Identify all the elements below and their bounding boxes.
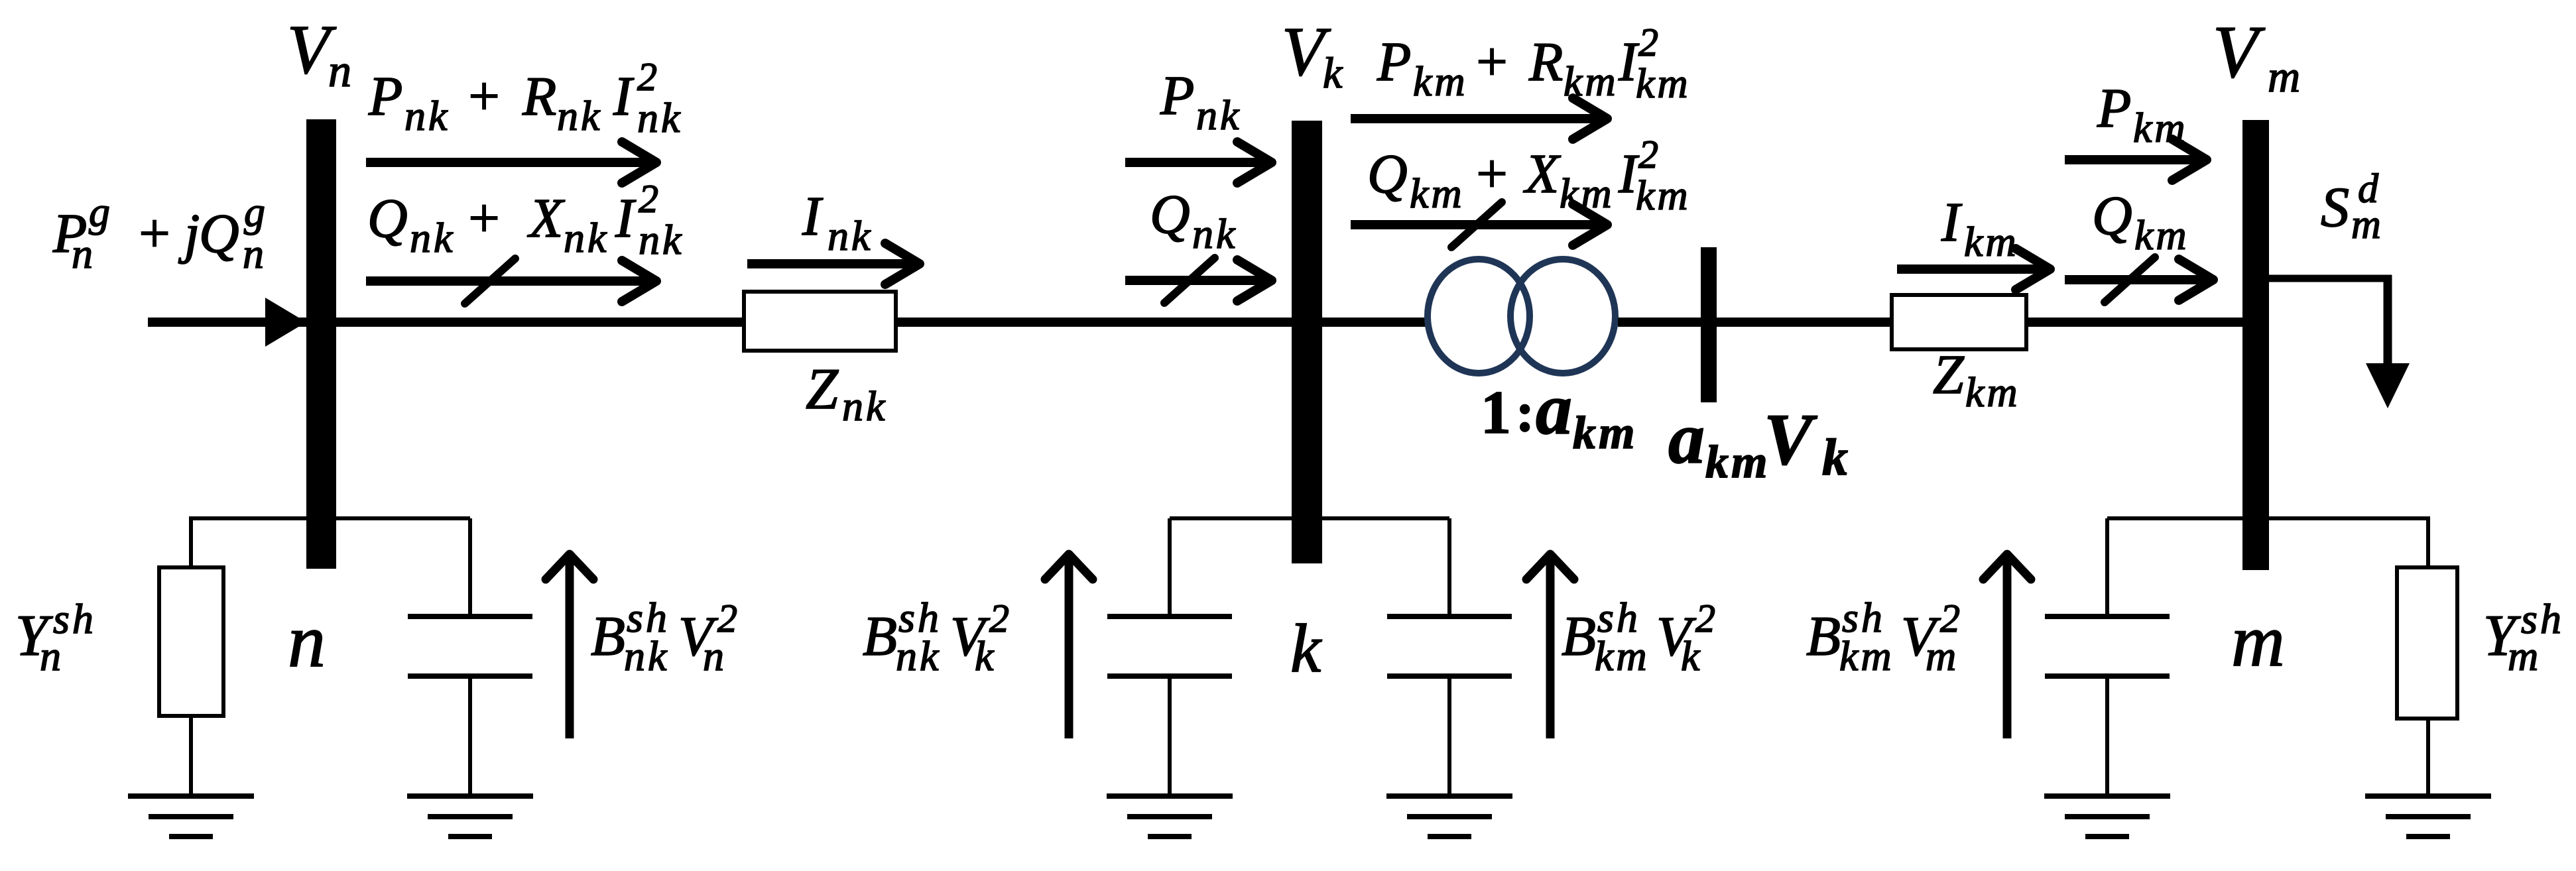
ground below bus k left capacitor — [1107, 793, 1233, 799]
shunt capacitor Bnk at bus n — [468, 518, 472, 616]
svg-text:Z: Z — [1933, 344, 1965, 406]
shunt capacitor Bnk at bus k — [1168, 518, 1172, 616]
svg-text:I: I — [613, 66, 635, 127]
internal node akmVk bar — [1701, 247, 1717, 402]
svg-text:km: km — [1595, 632, 1650, 679]
arrow BnkVn2 reactive injection — [566, 558, 574, 738]
svg-text:k: k — [1681, 632, 1701, 679]
shunt branch wire at bus n — [189, 516, 470, 520]
svg-text:Q: Q — [2092, 185, 2132, 247]
svg-text:m: m — [2268, 51, 2300, 101]
svg-text:nk: nk — [410, 214, 455, 261]
svg-text:B: B — [1806, 605, 1841, 668]
svg-text:a: a — [1536, 369, 1572, 449]
svg-text:g: g — [89, 188, 110, 235]
svg-text:n: n — [703, 632, 724, 679]
svg-text:k: k — [1290, 610, 1322, 687]
wire node akmVk to Zkm — [1717, 318, 1893, 327]
shunt branch wire at bus m — [2107, 516, 2428, 520]
svg-text:I: I — [802, 186, 824, 247]
arrow Ink current — [747, 259, 914, 268]
wire Ynsh to ground — [189, 716, 193, 796]
svg-text:km: km — [2134, 211, 2189, 259]
arrow Pkm into bus m — [2065, 155, 2201, 164]
impedance Zkm — [1892, 295, 2026, 349]
arrow Pkm flow from bus k — [1351, 114, 1602, 123]
svg-text:nk: nk — [828, 212, 873, 259]
svg-text:nk: nk — [564, 214, 609, 261]
svg-text:R: R — [1528, 31, 1563, 93]
impedance Znk — [744, 292, 896, 351]
shunt branch wire at bus k — [1170, 516, 1449, 520]
svg-text:I: I — [1941, 192, 1963, 253]
wire transformer to internal node akmVk — [1618, 318, 1701, 327]
svg-text:m: m — [2351, 202, 2381, 247]
svg-text:nk: nk — [1192, 210, 1237, 257]
svg-text:km: km — [1636, 60, 1691, 107]
svg-text:km: km — [1964, 218, 2019, 265]
wire bus n to Znk — [336, 318, 745, 327]
arrow Pnk into bus k — [1125, 158, 1266, 167]
load tap wire at bus m — [2269, 275, 2392, 282]
svg-text:g: g — [244, 188, 265, 235]
svg-text:X: X — [527, 188, 566, 249]
svg-text:+: + — [465, 66, 503, 127]
svg-text:n: n — [72, 230, 93, 277]
svg-text:km: km — [1573, 408, 1637, 459]
bus n busbar — [306, 119, 336, 569]
main transmission line: generator feed into bus n — [148, 318, 306, 327]
svg-text:+: + — [1473, 31, 1510, 93]
wire Zkm to bus m — [2026, 318, 2242, 327]
ground below Ynsh — [128, 793, 254, 799]
svg-text:n: n — [328, 46, 351, 97]
svg-text:Q: Q — [367, 188, 408, 249]
arrow BkmVk2 reactive injection — [1546, 558, 1555, 738]
ground below bus m capacitor — [2044, 793, 2170, 799]
arrow Ikm current — [1897, 264, 2045, 274]
svg-text:nk: nk — [404, 92, 450, 139]
arrow BnkVk2 reactive injection — [1065, 558, 1073, 738]
svg-text:1: 1 — [1481, 378, 1511, 446]
svg-text:+: + — [465, 188, 503, 249]
svg-text:n: n — [243, 230, 264, 277]
bus k busbar — [1292, 121, 1322, 563]
svg-text:V: V — [2213, 11, 2266, 93]
svg-text:+: + — [135, 203, 173, 264]
svg-text:m: m — [1926, 632, 1956, 679]
svg-text:nk: nk — [842, 382, 887, 430]
svg-text:km: km — [1413, 58, 1468, 105]
svg-text:P: P — [2097, 78, 2131, 139]
arrow Pnk flow from bus n — [366, 158, 651, 167]
wire Ymsh to ground — [2426, 719, 2430, 796]
slash on Qnk arrow — [465, 259, 515, 304]
arrow Qkm flow from bus k — [1351, 220, 1602, 229]
wire bus k to transformer — [1322, 318, 1427, 327]
shunt admittance Ynsh resistor — [159, 567, 223, 716]
svg-text:km: km — [1636, 172, 1691, 219]
svg-text:nk: nk — [637, 94, 682, 141]
arrow BkmVm2 reactive injection — [2003, 558, 2012, 738]
bus m busbar — [2242, 120, 2269, 570]
svg-text:km: km — [1564, 58, 1619, 105]
shunt capacitor Bkm at bus m — [2105, 518, 2109, 616]
svg-text:V: V — [1764, 399, 1817, 480]
shunt capacitor Bkm at bus k — [1447, 518, 1451, 616]
wire to shunt admittance Ymsh — [2426, 516, 2430, 567]
svg-text:a: a — [1668, 398, 1705, 479]
slash on Qkm arrow at bus m — [2105, 257, 2155, 302]
svg-text:S: S — [2321, 175, 2349, 239]
svg-text:Q: Q — [199, 203, 239, 264]
ground below bus n capacitor — [407, 793, 533, 799]
svg-text:Q: Q — [1367, 143, 1408, 205]
slash on Qkm arrow — [1451, 202, 1502, 247]
svg-text:m: m — [2508, 632, 2538, 679]
svg-text:k: k — [975, 632, 995, 679]
transformer 1:akm primary winding circle — [1428, 259, 1530, 373]
svg-text:2: 2 — [1638, 21, 1658, 64]
svg-text:km: km — [1965, 369, 2020, 416]
svg-text:nk: nk — [557, 92, 602, 139]
svg-text:2: 2 — [637, 55, 657, 99]
ground below Ymsh — [2365, 793, 2491, 799]
svg-text:nk: nk — [896, 632, 941, 679]
svg-text:nk: nk — [624, 632, 669, 679]
arrow Qkm into bus m — [2065, 275, 2208, 284]
svg-text:km: km — [1410, 170, 1465, 217]
svg-text:nk: nk — [639, 216, 684, 263]
svg-text:km: km — [1560, 170, 1615, 217]
svg-text:+: + — [1473, 143, 1510, 205]
wire Znk to bus k — [896, 318, 1292, 327]
ground below bus k right capacitor — [1386, 793, 1512, 799]
svg-text:n: n — [40, 632, 61, 679]
svg-text:nk: nk — [1196, 91, 1241, 139]
svg-text:k: k — [1822, 428, 1848, 486]
svg-text:P: P — [368, 66, 402, 127]
generator injection arrowhead at bus n — [265, 298, 306, 347]
svg-text:R: R — [522, 66, 556, 127]
svg-text:B: B — [591, 605, 625, 668]
svg-text:Q: Q — [1150, 184, 1190, 245]
svg-text:km: km — [2133, 104, 2188, 151]
svg-text::: : — [1516, 382, 1534, 443]
svg-text:m: m — [2231, 600, 2285, 682]
arrow Qnk into bus k — [1125, 276, 1266, 285]
svg-text:2: 2 — [639, 177, 658, 221]
svg-text:2: 2 — [1638, 133, 1658, 176]
svg-text:km: km — [1705, 437, 1770, 488]
slash on Qnk arrow at bus k — [1164, 258, 1215, 303]
svg-text:km: km — [1839, 632, 1894, 679]
wire to shunt admittance Ynsh — [189, 516, 193, 567]
svg-text:I: I — [615, 188, 637, 249]
arrow Qnk flow from bus n — [366, 276, 651, 286]
svg-text:k: k — [1323, 49, 1343, 97]
load Smd arrowhead — [2366, 363, 2410, 408]
svg-text:P: P — [1377, 31, 1411, 93]
shunt admittance Ymsh resistor — [2397, 567, 2457, 719]
svg-text:n: n — [288, 599, 326, 683]
svg-text:B: B — [1562, 605, 1596, 668]
svg-text:Z: Z — [806, 357, 839, 422]
svg-text:B: B — [863, 605, 897, 668]
svg-text:P: P — [1160, 65, 1194, 127]
transformer 1:akm secondary winding circle — [1510, 259, 1615, 373]
svg-text:X: X — [1523, 143, 1562, 205]
